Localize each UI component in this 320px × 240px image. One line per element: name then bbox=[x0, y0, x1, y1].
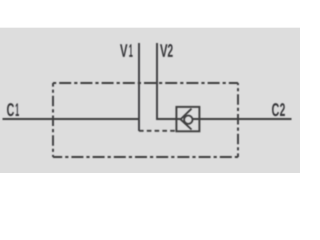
label C1 bbox=[7, 103, 19, 116]
check valve ball bbox=[184, 116, 192, 124]
wire V1 vertical bbox=[138, 43, 140, 131]
gray drawing band bbox=[0, 28, 300, 173]
label V2 bbox=[160, 44, 173, 57]
check valve seat bbox=[181, 109, 192, 130]
label V1 bbox=[120, 44, 133, 57]
enclosure dashed box bbox=[53, 83, 238, 157]
label C2 bbox=[272, 103, 285, 116]
pilot line dashed bbox=[139, 130, 176, 132]
wire V2 vertical + elbow to valve bbox=[157, 43, 181, 119]
background white page bbox=[0, 0, 300, 200]
check valve V1 body box bbox=[176, 107, 199, 131]
wire C1 to V1 junction bbox=[3, 118, 140, 120]
wire valve to C2 bbox=[193, 118, 292, 120]
